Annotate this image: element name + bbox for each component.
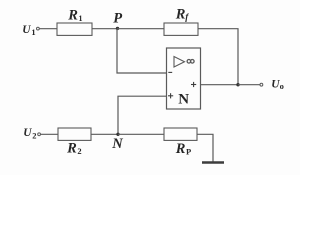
label U2 (23, 127, 36, 141)
wire R2 to node N (91, 133, 118, 135)
node P (116, 27, 119, 30)
svg-text:2: 2 (77, 146, 81, 156)
label U1 (22, 24, 35, 37)
op-amp N body (167, 48, 201, 109)
svg-text:U: U (23, 127, 32, 139)
svg-text:1: 1 (79, 14, 83, 23)
label Rf (175, 7, 190, 23)
wire node N up to op-amp noninverting input (118, 96, 167, 134)
svg-text:P: P (186, 146, 191, 156)
wire output node to terminal Uo (238, 84, 260, 86)
wire op-amp output to output node (201, 84, 239, 86)
wire Rf to output corner (198, 29, 238, 85)
resistor Rf (164, 23, 198, 35)
label Uo (271, 78, 284, 91)
resistor RP (164, 128, 197, 140)
svg-text:N: N (111, 136, 123, 152)
svg-text:R: R (175, 141, 186, 157)
wire U2 to R2 (41, 133, 58, 135)
op-amp infinity symbol (187, 60, 194, 64)
wire R1 to node P (92, 28, 117, 30)
svg-text:1: 1 (31, 27, 35, 37)
resistor R2 (58, 128, 91, 140)
svg-text:P: P (113, 10, 122, 26)
wire node P to Rf (117, 28, 164, 30)
wire U1 to R1 (39, 28, 57, 30)
svg-text:N: N (178, 91, 189, 107)
op-amp output plus sign (191, 82, 196, 87)
resistor R1 (57, 23, 92, 35)
svg-text:2: 2 (32, 130, 36, 140)
terminal U1 (37, 27, 40, 30)
wire RP to ground (197, 134, 213, 162)
wire node N to RP (118, 133, 164, 135)
label RP (175, 141, 192, 157)
wire node P down to op-amp inverting input (117, 29, 167, 73)
label R1 (67, 8, 82, 24)
label R2 (66, 140, 82, 156)
op-amp noninverting input plus sign (168, 93, 173, 98)
node N (116, 133, 119, 136)
svg-text:R: R (66, 140, 77, 156)
svg-text:o: o (280, 81, 284, 91)
svg-text:R: R (175, 7, 186, 23)
op-amp gain triangle (174, 57, 185, 68)
output junction node (236, 83, 239, 86)
svg-text:R: R (67, 8, 78, 24)
svg-text:U: U (22, 24, 31, 36)
terminal U2 (38, 133, 41, 136)
ground (202, 161, 224, 163)
terminal Uo (260, 83, 263, 86)
op-amp inverting input minus sign (168, 71, 172, 73)
